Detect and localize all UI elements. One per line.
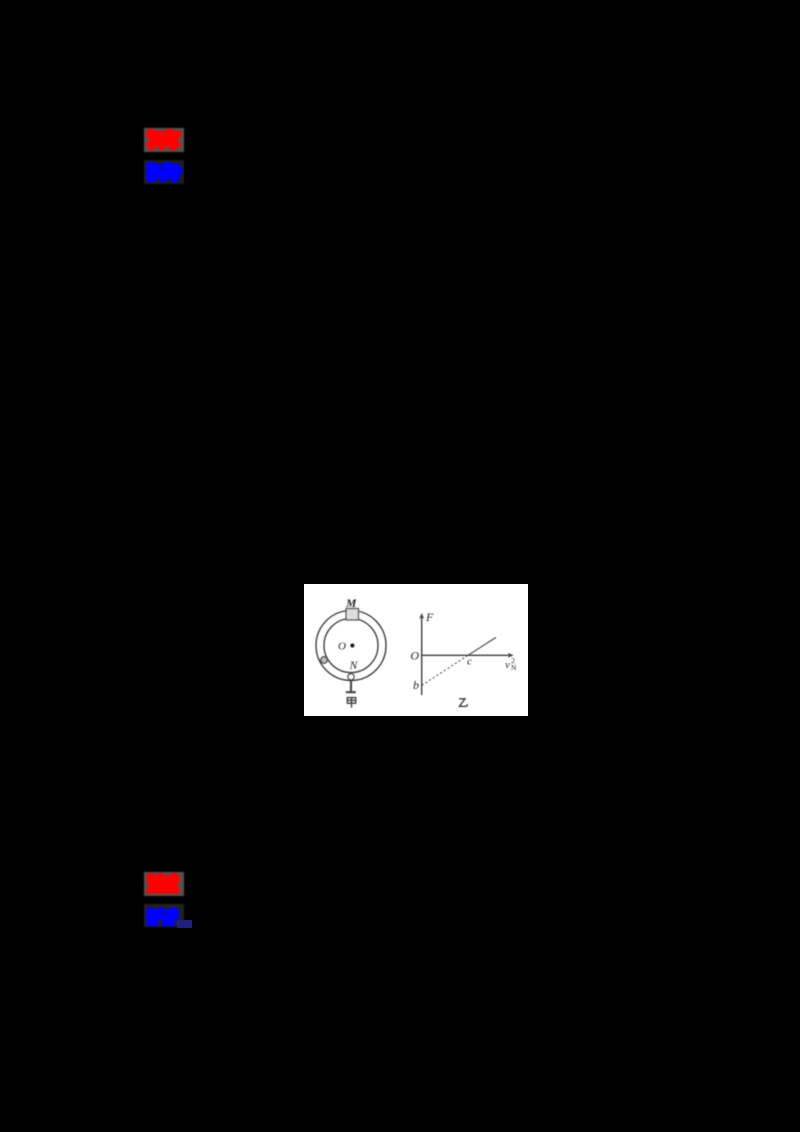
inner circle	[324, 619, 378, 673]
y axis	[421, 615, 423, 696]
support stand below	[346, 680, 356, 692]
label jia (CJK drawn)	[347, 698, 355, 708]
svg-text:v: v	[505, 659, 510, 671]
dashed segment from b to crossing	[422, 655, 468, 685]
solid segment above axis	[468, 637, 496, 655]
svg-text:b: b	[413, 678, 419, 692]
gray ball lower-left in tube	[321, 657, 328, 664]
ball in tube at bottom (N)	[348, 674, 354, 680]
svg-text:N: N	[349, 660, 359, 672]
block M on top of ring	[346, 609, 359, 621]
svg-text:c: c	[467, 656, 472, 668]
svg-text:N: N	[511, 663, 517, 672]
svg-text:F: F	[425, 610, 434, 624]
center dot O	[350, 644, 354, 648]
x axis	[422, 654, 511, 656]
answer badge 1 (red)	[144, 128, 184, 152]
physics figure panel	[304, 584, 528, 716]
navy selection box	[177, 920, 192, 928]
outer circle	[316, 611, 386, 681]
svg-text:M: M	[345, 598, 357, 610]
answer badge 2 (red)	[144, 872, 184, 896]
analysis badge 2 (blue) with selection box	[144, 904, 184, 927]
analysis badge 1 (blue)	[144, 160, 184, 184]
label yi (CJK drawn)	[459, 699, 467, 707]
svg-text:O: O	[410, 649, 419, 663]
svg-text:O: O	[338, 641, 346, 653]
